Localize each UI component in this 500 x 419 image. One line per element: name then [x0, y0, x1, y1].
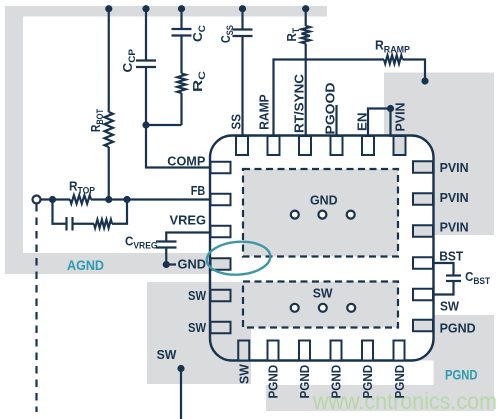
- pin SW (bottom 1): [238, 341, 249, 361]
- op IC U1 outline: [210, 136, 434, 361]
- pin PGND (bottom 2): [268, 341, 279, 361]
- node dot C_CP top: [142, 5, 149, 12]
- wire COMP connection: [146, 125, 211, 168]
- capacitor C_CP: [136, 59, 156, 61]
- resistor R_BOT: [105, 112, 114, 147]
- pin PVIN (right 3): [413, 225, 433, 237]
- svg-text:PVIN: PVIN: [440, 160, 469, 175]
- svg-text:GND: GND: [178, 256, 207, 271]
- svg-text:SW: SW: [188, 288, 207, 303]
- svg-text:PVIN: PVIN: [440, 190, 469, 205]
- wire GND pin to AGND: [166, 263, 211, 265]
- SW plane (gray block bottom left): [147, 282, 251, 384]
- label PGND (bottom 4): [329, 365, 344, 399]
- capacitor C_BST: [446, 274, 461, 276]
- pin PGND (right 6): [413, 320, 433, 332]
- pin PVIN (right 2): [413, 193, 433, 205]
- svg-text:SW: SW: [237, 364, 252, 384]
- pin SW (right 5): [413, 289, 433, 301]
- node dot C_SS top: [239, 5, 246, 12]
- resistor R_TOP: [70, 195, 91, 203]
- svg-text:VREG: VREG: [170, 212, 207, 227]
- pin PGND (bottom 4): [331, 341, 342, 361]
- pin PGOOD (top 4): [331, 136, 343, 155]
- pin FB (left 2): [211, 194, 231, 206]
- svg-text:BST: BST: [439, 248, 463, 263]
- SW pad (dashed): [243, 282, 398, 328]
- dashed VOUT line: [35, 204, 37, 412]
- PVIN plane (gray block top right): [384, 73, 494, 236]
- node dot C_C top: [178, 5, 185, 12]
- svg-text:PGOOD: PGOOD: [323, 83, 338, 135]
- pin COMP (left 1): [211, 162, 231, 174]
- label RAMP: [257, 94, 272, 130]
- svg-text:PGND: PGND: [266, 365, 281, 399]
- wire SW down: [180, 369, 182, 419]
- PGND plane (gray band bottom): [266, 385, 494, 411]
- svg-text:COMP: COMP: [167, 153, 205, 168]
- capacitor C_FF plates: [65, 217, 67, 231]
- svg-text:FB: FB: [191, 183, 206, 198]
- node dot EN-PVIN: [387, 105, 394, 112]
- svg-text:RT/SYNC: RT/SYNC: [292, 73, 307, 133]
- label RT/SYNC: [292, 73, 307, 133]
- PGND plane (gray block right): [434, 315, 495, 411]
- pin PVIN (top 6): [394, 136, 406, 155]
- svg-text:SS: SS: [229, 114, 244, 130]
- svg-text:EN: EN: [355, 113, 370, 132]
- wire PGOOD stub: [335, 105, 337, 137]
- AGND plane (gray frame: top strip): [5, 6, 327, 17]
- node dot SW plane: [177, 365, 184, 372]
- terminal VOUT open circle: [33, 196, 41, 204]
- label C_C: [190, 25, 208, 42]
- label EN: [355, 113, 370, 132]
- svg-text:AGND: AGND: [67, 258, 104, 273]
- svg-text:PGND: PGND: [360, 365, 375, 399]
- wire VREG to C_VREG: [166, 233, 211, 242]
- pin GND (left 4): [211, 258, 231, 270]
- label C_SS: [218, 25, 236, 43]
- resistor R_RAMP: [384, 55, 403, 63]
- svg-text:PGND: PGND: [392, 365, 407, 399]
- pin EN (top 5): [362, 136, 374, 155]
- svg-text:SW: SW: [313, 286, 333, 301]
- svg-text:PVIN: PVIN: [393, 103, 408, 132]
- pin PGND (bottom 5): [362, 341, 373, 361]
- node dot C_CP bottom junction: [142, 121, 149, 128]
- pin PGND (bottom 6): [394, 341, 405, 361]
- svg-text:PGND: PGND: [440, 320, 476, 335]
- wire joining R_C bottom to C_CP branch: [146, 124, 182, 126]
- PGND wedge outside bottom-right corner: [409, 336, 434, 361]
- label PGND (bottom 2): [266, 365, 281, 399]
- node dot FB at lead branch: [123, 196, 130, 203]
- wire BST to C_BST to SW: [434, 263, 454, 276]
- wire R_BOT branch vertical: [108, 9, 110, 112]
- svg-text:SW: SW: [188, 320, 207, 335]
- capacitor C_C: [172, 28, 192, 30]
- pin SW (left 5): [211, 290, 231, 302]
- resistor R_T: [302, 26, 310, 44]
- node dot R_BOT top: [105, 5, 112, 12]
- node dot FB at R_BOT: [105, 196, 112, 203]
- label PGND (bottom 6): [392, 365, 407, 399]
- wire R_T branch: [305, 9, 307, 26]
- wire RAMP to R_RAMP: [274, 60, 385, 138]
- label PVIN (top pin): [393, 103, 408, 132]
- svg-text:PGND: PGND: [297, 365, 312, 399]
- GND exposed pad (dashed): [243, 169, 398, 257]
- wire C_SS branch: [241, 9, 243, 30]
- pin VREG (left 3): [211, 226, 231, 238]
- label SS: [229, 114, 244, 130]
- wire EN to PVIN: [368, 109, 391, 138]
- label PGOOD: [323, 83, 338, 135]
- wire feedforward branch: [53, 200, 67, 224]
- pin RT/SYNC (top 3): [299, 136, 311, 155]
- label SW (bottom pin 1): [237, 364, 252, 384]
- svg-text:RAMP: RAMP: [257, 94, 272, 130]
- label PGND (bottom 5): [360, 365, 375, 399]
- resistor R_C: [177, 74, 185, 94]
- resistor R_FF: [94, 220, 112, 228]
- SW pad vias: [291, 304, 299, 312]
- label R_C: [190, 71, 208, 92]
- capacitor C_VREG: [156, 240, 177, 242]
- wire FB line: [41, 198, 70, 200]
- highlight ellipse on GND pin: [206, 240, 272, 277]
- pin PVIN (right 1): [413, 161, 433, 173]
- label R_T: [284, 28, 302, 42]
- svg-text:PGND: PGND: [445, 367, 478, 382]
- svg-text:PVIN: PVIN: [440, 220, 469, 235]
- node dot R_RAMP end on PVIN plane: [421, 77, 428, 84]
- svg-text:GND: GND: [310, 192, 338, 207]
- node dot R_T top: [302, 5, 309, 12]
- node dot FB left: [49, 196, 56, 203]
- pin RAMP (top 2): [268, 136, 280, 155]
- label R_BOT: [88, 109, 106, 132]
- svg-text:SW: SW: [440, 299, 460, 314]
- label C_CP: [120, 48, 138, 72]
- label GND (pin) backing: [176, 258, 208, 271]
- wire C_CP branch: [145, 9, 147, 60]
- capacitor C_SS: [233, 28, 253, 30]
- AGND plane (gray frame: left strip): [5, 6, 23, 274]
- AGND plane (gray band bottom, AGND label area): [5, 253, 211, 274]
- svg-text:SW: SW: [157, 347, 177, 362]
- GND pad vias: [291, 211, 299, 219]
- node dot C_VREG on AGND: [163, 261, 170, 268]
- svg-text:PGND: PGND: [329, 365, 344, 399]
- pin BST (right 4): [413, 257, 433, 269]
- pin SS (top 1): [236, 136, 248, 155]
- label PGND (bottom 3): [297, 365, 312, 399]
- pin PGND (bottom 3): [299, 341, 310, 361]
- pin SW (left 6): [211, 322, 231, 334]
- IC interior white: [210, 136, 434, 361]
- wire C_C / R_C branch: [180, 9, 182, 29]
